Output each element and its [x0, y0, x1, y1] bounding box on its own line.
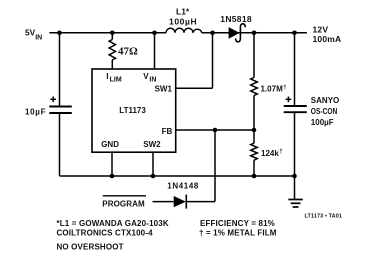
svg-text:100µF: 100µF	[311, 118, 334, 127]
junction FB / divider node	[252, 128, 257, 133]
capacitor C1 10uF	[25, 97, 72, 117]
node 5VIN input label	[25, 28, 42, 42]
svg-text:EFFICIENCY = 81%: EFFICIENCY = 81%	[200, 219, 275, 228]
note efficiency	[199, 219, 277, 238]
junction input cap node	[57, 31, 62, 36]
junction SW1 node	[210, 31, 215, 36]
svg-text:100mA: 100mA	[313, 34, 342, 44]
wire SW1 pin	[176, 33, 213, 88]
op-amp U1 LT1173 regulator	[92, 69, 176, 152]
wire top rail left (input to inductor)	[49, 32, 166, 34]
svg-text:† = 1% METAL FILM: † = 1% METAL FILM	[199, 229, 277, 238]
wire output cap top	[294, 33, 296, 106]
svg-text:OS-CON: OS-CON	[311, 107, 338, 116]
svg-text:IN: IN	[149, 77, 156, 84]
node PROGRAM label	[102, 196, 146, 209]
svg-text:LIM: LIM	[110, 77, 122, 84]
junction 47ohm node	[110, 31, 115, 36]
diode D1 1N5818 schottky	[220, 14, 252, 42]
wire 1N4148 anode	[153, 201, 174, 203]
wire output cap bottom	[294, 112, 296, 176]
wire input cap top	[59, 33, 61, 106]
svg-text:47Ω: 47Ω	[118, 45, 138, 57]
junction diode cathode node	[252, 31, 257, 36]
ground	[288, 176, 303, 207]
svg-text:GND: GND	[101, 140, 119, 149]
diode D2 1N4148	[167, 182, 199, 209]
svg-text:LT1173 • TA01: LT1173 • TA01	[305, 214, 343, 220]
node 12V output label	[313, 25, 342, 44]
wire VIN pin	[154, 33, 156, 69]
svg-text:5V: 5V	[25, 28, 36, 38]
svg-text:1.07M: 1.07M	[261, 85, 284, 94]
wire SW2 pin	[152, 152, 154, 176]
wire input cap bottom	[59, 113, 61, 176]
svg-text:†: †	[283, 85, 286, 91]
svg-text:PROGRAM: PROGRAM	[102, 199, 145, 208]
wire 1N4148 cathode to FB	[186, 130, 215, 202]
svg-text:124k: 124k	[261, 149, 279, 158]
svg-text:V: V	[143, 72, 149, 81]
wire GND pin	[111, 152, 113, 176]
svg-text:10µF: 10µF	[25, 108, 46, 117]
svg-text:1N5818: 1N5818	[220, 14, 252, 24]
svg-text:LT1173: LT1173	[119, 106, 146, 115]
svg-text:1N4148: 1N4148	[167, 182, 199, 191]
junction GND / rail node	[110, 174, 115, 179]
wire FB pin	[176, 129, 254, 131]
note inductor sourcing	[57, 219, 169, 252]
svg-text:SANYO: SANYO	[311, 96, 339, 105]
svg-text:*L1 = GOWANDA GA20-103K: *L1 = GOWANDA GA20-103K	[57, 219, 169, 228]
svg-text:I: I	[106, 72, 108, 81]
inductor L1 100uH	[166, 7, 202, 33]
junction FB / 1N4148 node	[213, 128, 218, 133]
wire bottom rail	[60, 175, 295, 177]
wire top rail right (inductor to output)	[202, 32, 307, 34]
svg-text:†: †	[279, 149, 282, 155]
junction output cap / rail node	[292, 174, 297, 179]
junction output cap node	[292, 31, 297, 36]
svg-text:COILTRONICS CTX100-4: COILTRONICS CTX100-4	[57, 229, 154, 238]
svg-text:IN: IN	[35, 34, 42, 41]
junction divider / rail node	[252, 174, 257, 179]
resistor R3 124k	[251, 130, 283, 176]
svg-text:100µH: 100µH	[169, 17, 197, 27]
resistor R1 47ohm	[109, 33, 138, 69]
junction VIN node	[152, 31, 157, 36]
junction SW2 / rail node	[151, 174, 156, 179]
svg-text:SW2: SW2	[143, 140, 161, 149]
svg-text:NO OVERSHOOT: NO OVERSHOOT	[57, 243, 124, 252]
svg-text:FB: FB	[162, 127, 173, 136]
svg-text:SW1: SW1	[155, 84, 173, 93]
capacitor C2 100uF SANYO OS-CON	[284, 96, 340, 127]
resistor R2 1.07M	[251, 33, 287, 130]
svg-text:L1*: L1*	[176, 7, 190, 17]
